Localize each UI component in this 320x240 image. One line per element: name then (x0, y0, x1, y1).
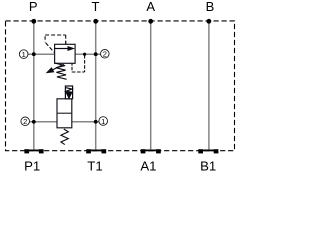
relief valve RV1 flow arrow (55, 48, 70, 50)
wire: relief valve outlet (RV1 to T) (75, 53, 100, 55)
junction dot T on border (93, 19, 98, 24)
relief valve RV1 drain dashed bottom leg (72, 71, 85, 73)
relief valve RV1 drain dashed right leg (84, 55, 86, 72)
wire: lower valve right (CV1 to T) (72, 121, 99, 123)
relief valve RV1 pilot dashed loop left edge (44, 36, 46, 42)
check valve CV1 cap spring zigzag (66, 88, 72, 93)
check valve CV1 body (two cells) (57, 99, 72, 128)
bottom port symbol A1 (141, 149, 161, 153)
junction dot T/lower valve (94, 120, 98, 124)
svg-text:B: B (206, 0, 215, 14)
relief valve RV1 drain stub (71, 63, 73, 65)
svg-text:1: 1 (101, 117, 105, 126)
wire: relief valve inlet (P to RV1) (28, 53, 55, 55)
relief valve RV1 pilot dashed loop top edge (45, 34, 66, 36)
check valve CV1 cell divider (57, 112, 72, 114)
node 1 circle (relief row left) (19, 50, 28, 59)
svg-text:P: P (29, 0, 38, 14)
bottom port symbol B1 (198, 149, 218, 153)
check valve CV1 return spring (61, 129, 68, 145)
svg-text:B1: B1 (200, 158, 216, 173)
wire: lower valve left (P to CV1) (30, 121, 57, 123)
check valve CV1 pilot cap box (65, 86, 72, 99)
junction dot A on border (148, 19, 153, 24)
svg-text:2: 2 (103, 50, 107, 59)
bottom port symbol P1 (24, 149, 43, 153)
relief valve RV1 pilot dashed loop diagonal (46, 43, 55, 53)
manifold boundary dashed border (6, 21, 235, 151)
relief valve RV1 drain dashed left leg (71, 67, 73, 73)
wire: net B vertical line (208, 21, 210, 149)
bottom port symbol T1 (86, 149, 106, 153)
node 1 circle (lower row right) (99, 117, 108, 126)
wire: net P vertical line (33, 21, 35, 149)
relief valve RV1 pilot stub (65, 42, 67, 45)
wire: net A vertical line (150, 21, 152, 149)
node 2 circle (lower row left) (21, 117, 30, 126)
svg-text:A1: A1 (140, 158, 156, 173)
junction dot P/lower valve (32, 120, 36, 124)
relief valve RV1 adjustment arrow (51, 64, 64, 71)
svg-text:1: 1 (22, 50, 26, 59)
junction dot B on border (207, 19, 212, 24)
node 2 circle (relief row right) (101, 50, 110, 59)
junction dot P/relief inlet (32, 52, 36, 56)
check valve CV1 poppet triangle (66, 92, 73, 99)
svg-text:2: 2 (23, 117, 27, 126)
svg-text:T: T (92, 0, 100, 14)
wire: net T vertical line (95, 21, 97, 149)
relief valve RV1 spring (55, 63, 66, 79)
junction dot drain tap (83, 53, 86, 56)
svg-text:T1: T1 (87, 158, 102, 173)
relief valve RV1 body (55, 44, 76, 63)
junction dot T/relief outlet (94, 52, 98, 56)
svg-text:P1: P1 (24, 158, 40, 173)
relief valve RV1 pilot dashed loop right edge (65, 35, 67, 44)
svg-text:A: A (146, 0, 155, 14)
junction dot P on border (31, 19, 36, 24)
